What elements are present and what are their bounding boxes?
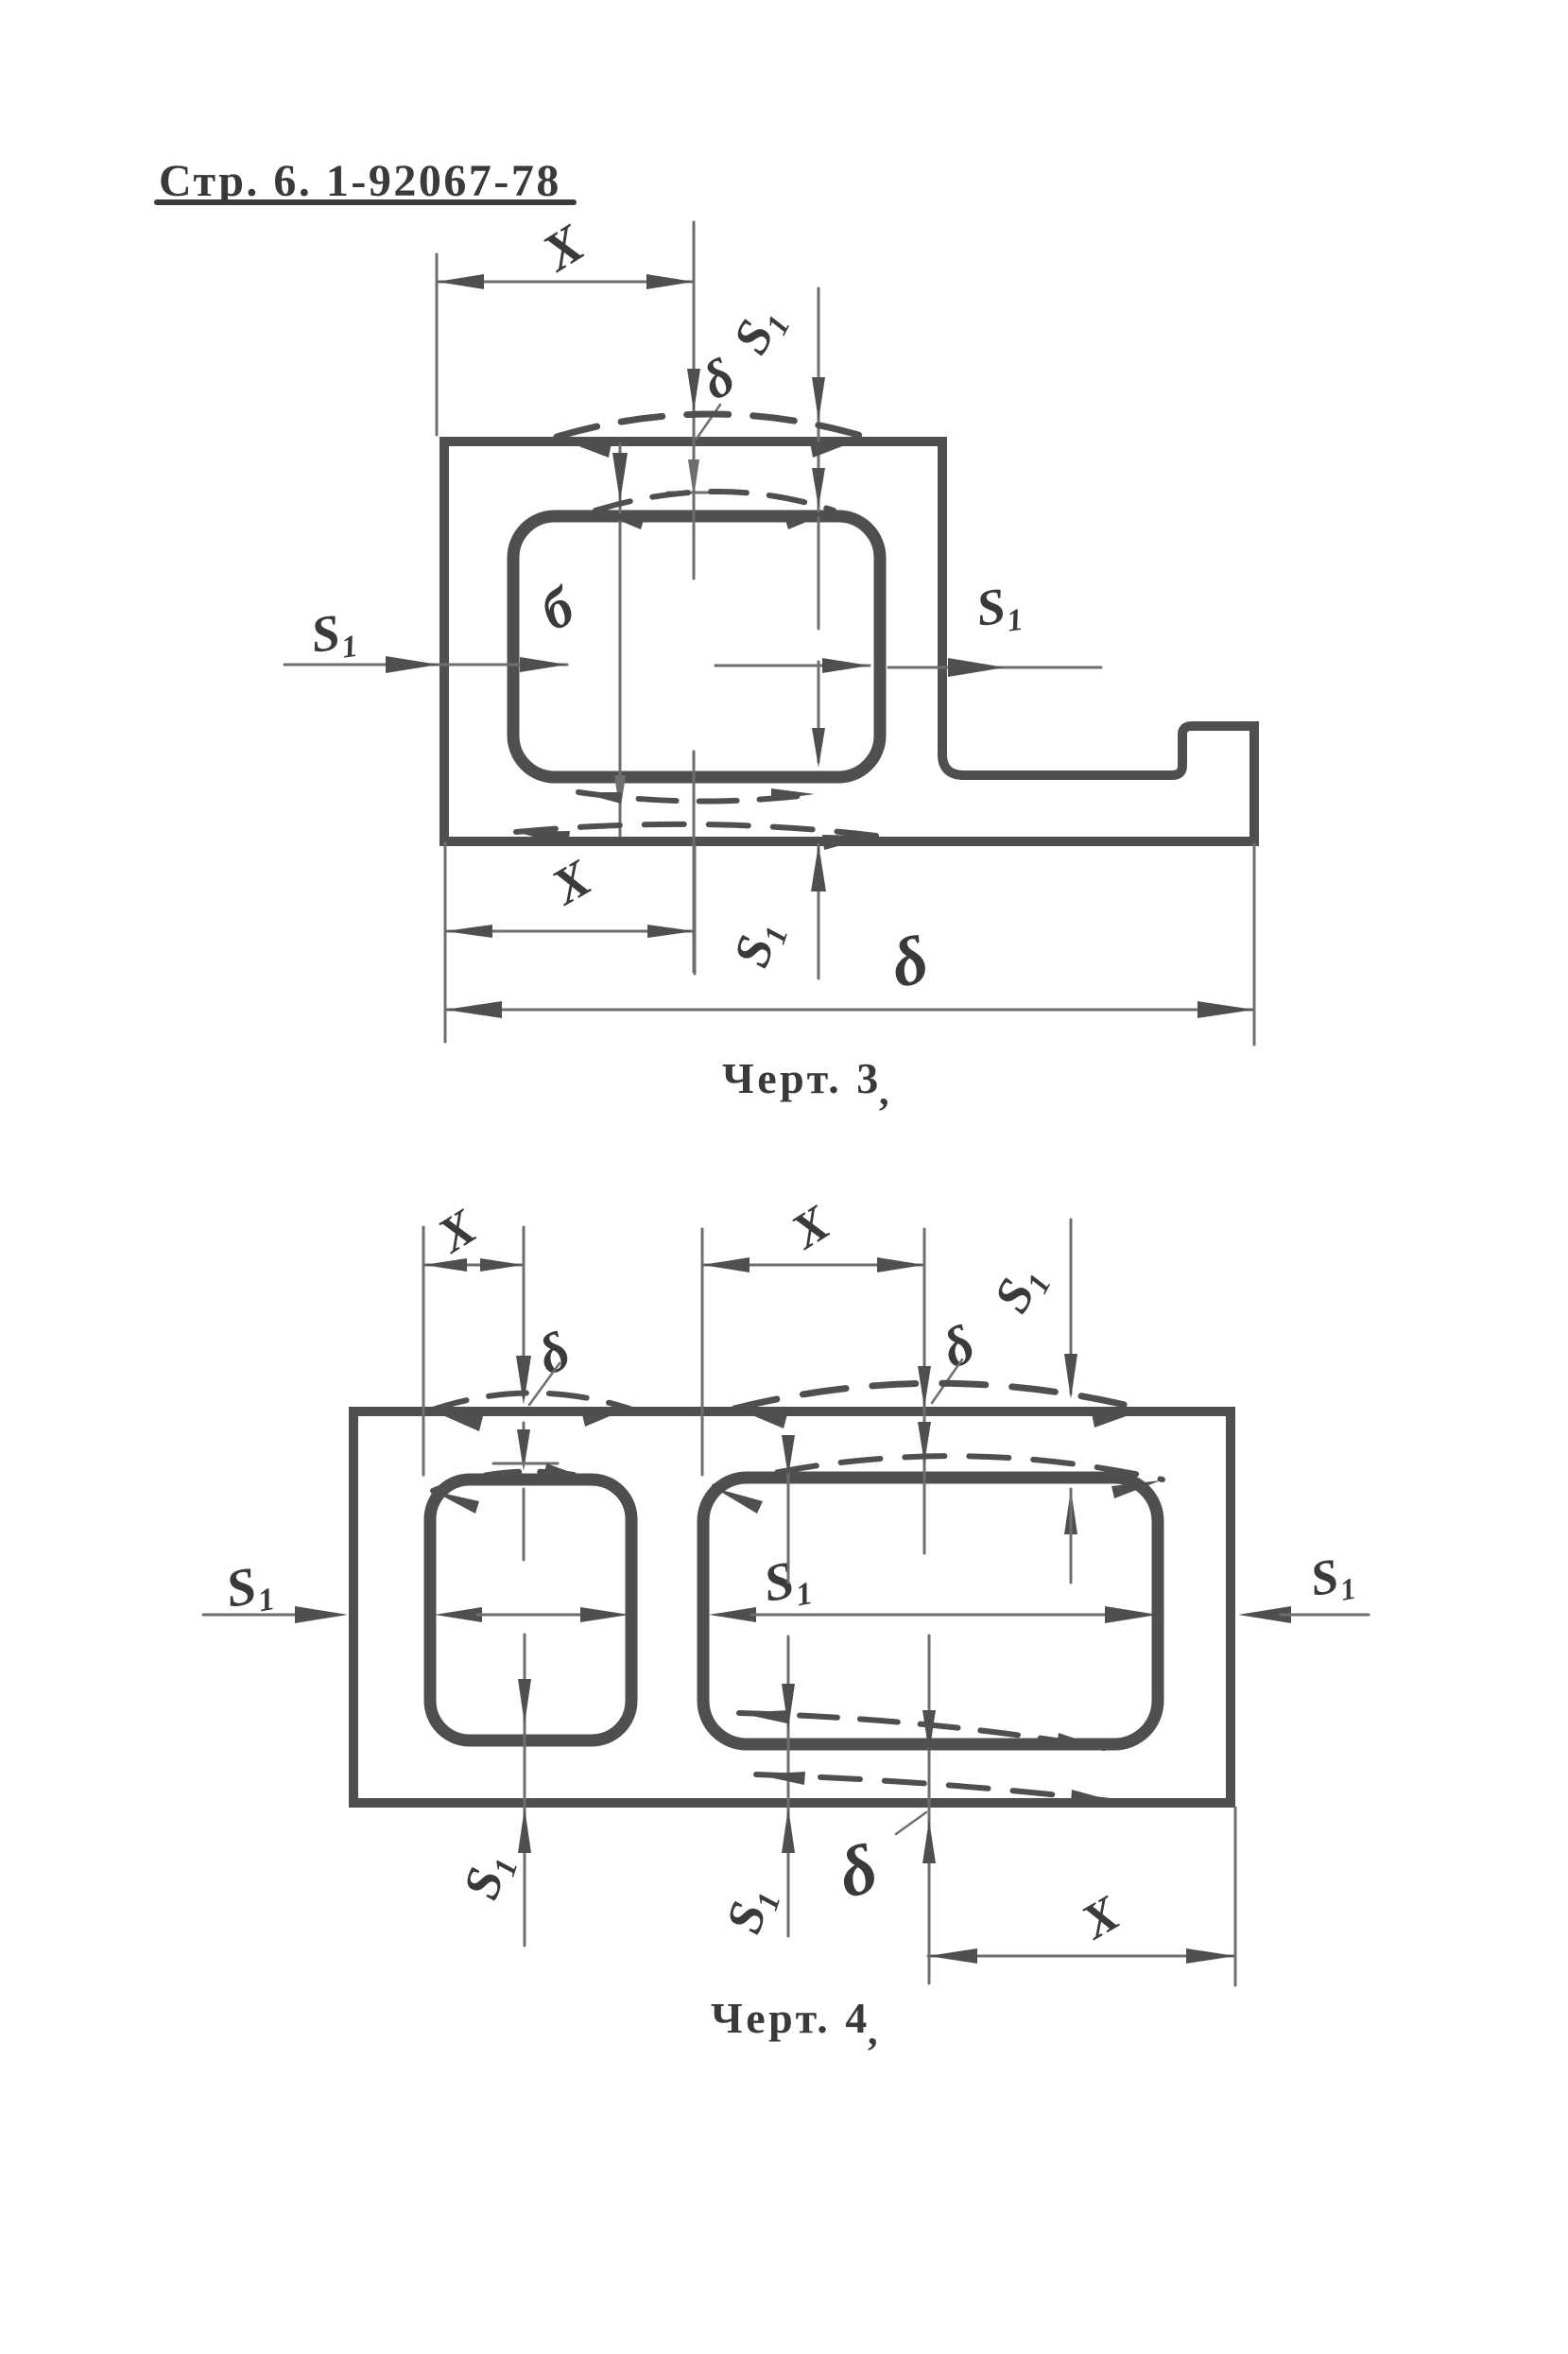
svg-text:δ: δ <box>884 921 936 1003</box>
fig4 x1133 extension lower <box>1070 1489 1073 1583</box>
fig3 bottom S1 extension <box>818 844 820 978</box>
fig4 mid X dimension line <box>702 1264 924 1267</box>
fig3 top S1 arrow at hole bottom <box>812 728 825 768</box>
fig4 x834 upper line <box>787 1437 790 1583</box>
fig4 arc6 arrow left <box>756 1772 805 1785</box>
svg-text:S1: S1 <box>973 575 1025 643</box>
fig4 delta top-left leader <box>529 1363 560 1405</box>
fig4 delta line mid <box>523 1423 526 1463</box>
fig4 dashed arc below bottom edge <box>756 1774 1118 1802</box>
fig4 x834 arrow up <box>782 1808 795 1853</box>
fig3 delta dimension line <box>445 1009 1254 1012</box>
fig3 top X arrow left <box>437 274 484 289</box>
fig4 outer rectangle outline <box>353 1411 1231 1803</box>
fig3 bottom X arrow left <box>445 925 492 938</box>
fig4 arc4 arrow right <box>1111 1480 1161 1498</box>
fig3 right edge extension below <box>1253 844 1256 1045</box>
fig4 delta arrow to top edge <box>516 1356 531 1405</box>
fig3 outer profile outline <box>444 441 1254 841</box>
svg-text:б: б <box>531 575 584 643</box>
fig3 top S1 arrow lower <box>812 468 825 508</box>
fig4 x555 arrow down <box>518 1679 531 1724</box>
fig3 bottom S1 arrow <box>811 844 826 891</box>
fig3 dashed arc arrow left <box>557 438 612 458</box>
fig4 x973 extension <box>923 1229 926 1553</box>
svg-text:X: X <box>541 848 602 916</box>
fig4 left X arrow right <box>480 1258 524 1272</box>
fig3 dashed arc arrow right <box>810 438 865 458</box>
fig4 delta line lower <box>523 1489 526 1560</box>
fig4 dashed arc in right hole <box>715 1456 1163 1486</box>
fig4 left inner hole rounded rect <box>430 1480 631 1740</box>
fig4 dashed arc above top edge right <box>734 1383 1145 1410</box>
fig4 mid X arrow left <box>702 1257 750 1272</box>
fig4 left X arrow left <box>423 1258 467 1272</box>
fig3 delta arrow right <box>1198 1001 1254 1018</box>
fig4 left X dimension line <box>423 1264 524 1267</box>
fig4 section arrow b <box>435 1607 482 1622</box>
fig3 top S1 extension lower part <box>818 662 820 762</box>
fig3 b arrow bottom <box>614 775 626 813</box>
fig4 arc4 arrow left <box>715 1488 763 1514</box>
fig4 section arrow a <box>295 1606 348 1623</box>
fig3 centre extension below <box>694 846 697 974</box>
svg-text:δ: δ <box>933 1312 984 1379</box>
fig4 arc3 arrow left <box>433 1491 479 1514</box>
fig4 delta arrow to hole top <box>517 1429 530 1471</box>
fig3 centre line upper <box>693 222 696 579</box>
fig4 x1133 arrow up <box>1064 1489 1077 1534</box>
fig3 centre line lower <box>693 752 696 972</box>
fig3 section arrow c <box>822 658 870 673</box>
fig3 top S1 arrow upper <box>812 377 825 421</box>
fig4 arc5 arrow right <box>1057 1733 1106 1749</box>
fig3 bottom X dimension line <box>445 930 695 933</box>
fig3 arc-below-hole arrow right <box>771 788 815 800</box>
fig3 top X arrow right <box>646 274 694 289</box>
fig4 section arrow c <box>580 1607 629 1622</box>
svg-text:,: , <box>868 2010 878 2053</box>
fig4 x973 arrow below edge <box>918 1422 931 1463</box>
fig3 delta top leader line <box>697 405 720 439</box>
fig4 dashed arc above top edge left <box>430 1393 629 1411</box>
fig4 arc2 arrow left <box>734 1408 787 1428</box>
svg-text:X: X <box>1072 1886 1129 1950</box>
fig4 delta bottom leader <box>896 1812 926 1834</box>
fig4 x982 arrow up b <box>922 1820 936 1863</box>
fig4 dashed arc below right hole <box>739 1713 1104 1748</box>
svg-text:δ: δ <box>693 347 744 411</box>
fig3 delta arrow left <box>445 1001 502 1018</box>
fig4 x1133 extension upper <box>1070 1220 1073 1393</box>
fig4 mid X extension a <box>701 1229 704 1475</box>
svg-text:X: X <box>427 1200 486 1264</box>
fig3 centre line cross tick <box>667 492 735 494</box>
svg-text:,: , <box>879 1070 889 1114</box>
fig3 dashed arc below top edge <box>595 492 834 511</box>
fig4 section line seg2 <box>477 1614 581 1617</box>
fig3 section arrow d <box>948 658 1005 677</box>
fig3 bottom X arrow right <box>647 925 695 938</box>
fig4 section arrow f <box>1238 1606 1291 1623</box>
svg-text:δ: δ <box>830 1829 886 1913</box>
fig4 bottom X dimension line <box>928 1955 1235 1958</box>
fig4 arc2 arrow right <box>1092 1410 1145 1428</box>
fig4 bottom X arrow left <box>928 1948 977 1964</box>
fig4 x834 arrow down <box>782 1684 795 1729</box>
fig4 arc3 arrow right <box>544 1463 586 1478</box>
svg-text:X: X <box>781 1196 839 1260</box>
svg-text:S1: S1 <box>307 601 359 669</box>
fig4 bottom X arrow right <box>1186 1948 1235 1964</box>
fig3 dashed arc2 arrow right <box>784 511 834 529</box>
fig3 top X dimension line <box>437 281 694 284</box>
fig3 section arrow a <box>386 656 439 673</box>
svg-text:δ: δ <box>528 1319 579 1386</box>
fig4 x982 lower line <box>928 1636 931 1983</box>
fig3 section line left segment <box>284 664 567 666</box>
fig4 section line seg4 <box>1281 1614 1369 1617</box>
fig4 arc5 arrow left <box>739 1710 788 1723</box>
svg-text:Черт. 4: Черт. 4 <box>711 1994 870 2042</box>
fig4 x1133 arrow down <box>1064 1354 1077 1399</box>
fig4 section arrow e <box>1105 1606 1158 1623</box>
svg-text:S1: S1 <box>452 1846 525 1908</box>
fig4 section line seg1 <box>203 1614 307 1617</box>
fig3 left edge extension below <box>444 843 447 1042</box>
fig3 dashed arc above bottom edge <box>516 824 876 836</box>
fig3 section line mid segment <box>715 665 870 667</box>
fig3 dashed arc3 arrow right <box>822 835 876 850</box>
svg-text:S1: S1 <box>722 914 795 976</box>
fig4 delta top-right leader <box>932 1359 962 1403</box>
fig3 centre line arrow at arc <box>687 369 700 412</box>
fig3 arc-below-hole arrow left <box>578 792 622 804</box>
fig3 section line right segment <box>888 666 1101 669</box>
fig3 b dimension line <box>619 444 622 836</box>
svg-text:S1: S1 <box>221 1553 277 1623</box>
fig4 x555 arrow up <box>518 1808 531 1853</box>
fig4 section line seg3 <box>751 1614 1106 1617</box>
fig4 section arrow d <box>709 1607 756 1622</box>
svg-text:S1: S1 <box>715 1880 787 1942</box>
fig3 centre line small arrow <box>688 459 699 497</box>
svg-text:X: X <box>531 214 595 284</box>
svg-text:Стр. 6. 1-92067-78: Стр. 6. 1-92067-78 <box>159 156 561 206</box>
fig4 x834 lower line <box>787 1636 790 1936</box>
fig4 mid X arrow right <box>877 1257 924 1272</box>
fig4 right edge extension below <box>1234 1808 1237 1985</box>
fig4 dashed arc in left hole <box>433 1472 586 1491</box>
fig4 right inner hole rounded rect <box>703 1478 1158 1744</box>
fig4 x973 arrow to top edge <box>918 1366 931 1408</box>
svg-text:S1: S1 <box>722 297 798 365</box>
fig3 dashed arc2 arrow left <box>595 511 645 529</box>
svg-text:S1: S1 <box>983 1255 1059 1324</box>
fig4 arc1 arrow left <box>432 1411 483 1431</box>
fig3 dashed arc above top edge <box>557 414 865 437</box>
fig3 top X extension line left <box>436 254 439 435</box>
svg-text:S1: S1 <box>1306 1547 1358 1612</box>
fig3 dashed arc3 arrow left <box>516 831 570 846</box>
fig4 delta line upper <box>523 1227 526 1397</box>
fig3 section arrow b <box>520 657 567 672</box>
fig4 left X extension a <box>422 1227 425 1475</box>
fig3 b arrow top <box>612 453 628 502</box>
fig4 x555 lower line <box>524 1635 526 1946</box>
fig4 arc1 arrow right <box>582 1409 628 1427</box>
fig4 arc6 arrow right <box>1071 1790 1120 1803</box>
fig4 x982 arrow down a <box>922 1710 936 1754</box>
fig3 dashed arc below hole <box>578 792 815 802</box>
fig3 top S1 extension line <box>818 288 820 629</box>
fig4 x834 arrow top <box>782 1435 795 1477</box>
fig4 delta tick at hole top <box>493 1463 558 1465</box>
fig3 inner hole rounded rect <box>513 516 880 777</box>
svg-text:Черт. 3: Черт. 3 <box>722 1054 882 1102</box>
